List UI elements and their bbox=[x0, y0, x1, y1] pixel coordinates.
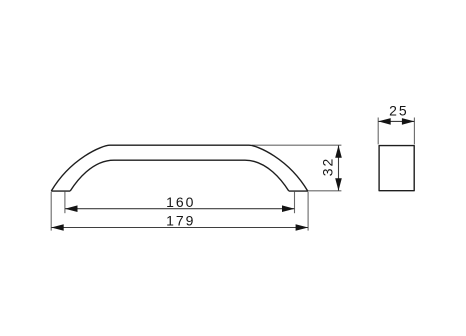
svg-text:32: 32 bbox=[320, 157, 336, 177]
svg-text:160: 160 bbox=[166, 194, 195, 210]
svg-text:179: 179 bbox=[166, 213, 195, 229]
svg-text:25: 25 bbox=[389, 103, 409, 119]
